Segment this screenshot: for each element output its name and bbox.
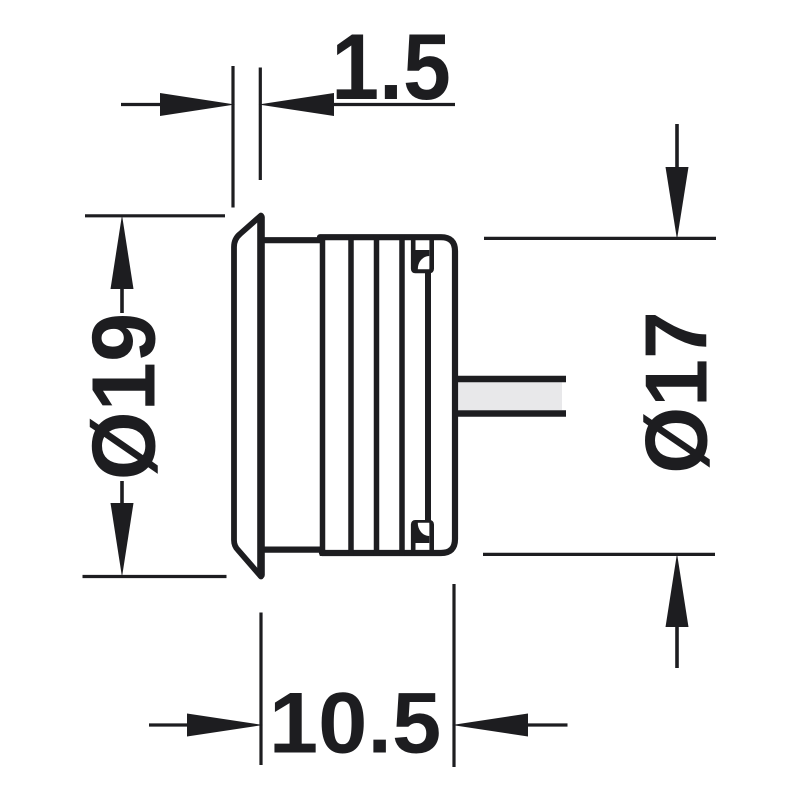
svg-text:Ø17: Ø17 xyxy=(627,311,725,474)
svg-text:1.5: 1.5 xyxy=(331,16,451,120)
dim 10.5: right arrow xyxy=(452,714,528,737)
dim 10.5: right extension line xyxy=(452,584,455,767)
top clip box xyxy=(413,239,432,271)
dim 1.5: right arrow xyxy=(259,93,335,116)
rib 2 xyxy=(348,235,354,556)
dim O17: down arrow xyxy=(666,167,689,240)
rib 1 xyxy=(320,235,326,556)
dim 1.5: left dimension line xyxy=(121,103,170,106)
dim 1.5: left extension line xyxy=(231,66,234,208)
bottom clip box xyxy=(413,522,432,553)
body outline xyxy=(261,237,455,553)
svg-text:Ø19: Ø19 xyxy=(73,313,174,480)
cable bottom border xyxy=(455,410,566,417)
cable fill xyxy=(455,382,562,410)
flange inner face xyxy=(257,217,265,575)
cable top border xyxy=(455,376,566,383)
dim 1.5: left arrow xyxy=(160,93,235,116)
dim O17: upper dimension line xyxy=(675,124,679,168)
rib 3 xyxy=(374,235,380,556)
dim O17: bottom extension line xyxy=(483,553,715,556)
dim O19: up arrow xyxy=(111,215,134,289)
dim 1.5: right dimension line xyxy=(325,103,455,106)
rib 4 xyxy=(399,235,405,556)
dim O19: upper dimension line xyxy=(120,289,124,313)
dim 10.5: left extension line xyxy=(259,613,262,766)
dim O19: top extension line xyxy=(85,214,225,217)
flange (trim ring) xyxy=(234,216,261,577)
dim O19: bottom extension line xyxy=(83,575,227,578)
dim O17: lower dimension line xyxy=(675,627,679,668)
dim 10.5: right dimension line xyxy=(524,723,568,726)
dim 10.5: left arrow xyxy=(187,714,263,737)
top clip spring xyxy=(416,250,430,270)
dim 10.5: left dimension line xyxy=(149,723,192,726)
dim O17: up arrow xyxy=(666,554,689,628)
rib 5 xyxy=(425,268,431,524)
dim O19: down arrow xyxy=(111,503,134,577)
dim O17: top extension line xyxy=(484,237,716,240)
svg-text:10.5: 10.5 xyxy=(269,676,441,772)
bottom clip spring xyxy=(416,523,430,544)
dim 1.5: right extension line xyxy=(259,68,262,181)
dim O19: lower dimension line xyxy=(120,481,124,503)
